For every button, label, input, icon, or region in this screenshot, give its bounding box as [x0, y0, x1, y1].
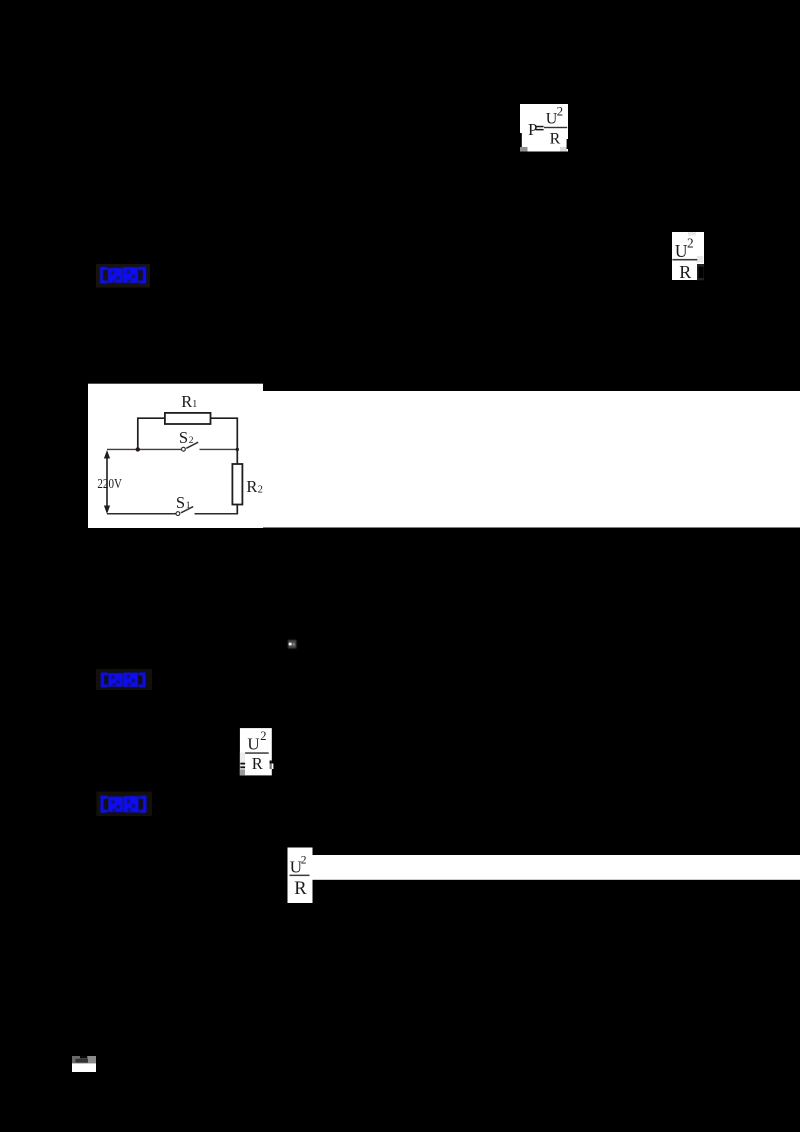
gray bar right edge [270, 764, 272, 770]
blue label 1 dark pockets [112, 271, 135, 283]
svg-text:R: R [181, 392, 192, 411]
gray corner mark bottom-right [560, 147, 567, 152]
white bit right of box [272, 764, 274, 770]
equals sign [536, 126, 544, 128]
svg-text:220V: 220V [97, 476, 122, 491]
switch S1 contact circle [176, 512, 180, 516]
gray patch right of bar [697, 256, 704, 263]
black edge fragment on left edge [520, 133, 522, 147]
svg-text:R: R [679, 262, 691, 282]
wire bottom left segment [107, 513, 176, 515]
dark square bottom-right [697, 264, 704, 280]
svg-text:2: 2 [189, 436, 194, 446]
black notch right edge [567, 139, 568, 149]
wire right vertical upper [236, 417, 238, 464]
blue label 1 glyphs [100, 267, 146, 284]
wire middle right segment [200, 448, 238, 450]
svg-text:2: 2 [258, 484, 263, 495]
wire bottom right segment [195, 513, 239, 515]
svg-text:S: S [176, 493, 185, 512]
svg-text:R: R [550, 130, 561, 147]
fraction bar [245, 752, 269, 754]
svg-text:U: U [675, 241, 688, 261]
gray left column [240, 753, 245, 776]
svg-text:R: R [246, 477, 257, 496]
svg-text:2: 2 [557, 104, 564, 119]
svg-text:R: R [294, 879, 307, 899]
resistor R2 [232, 464, 242, 505]
wire left vertical [137, 417, 139, 449]
svg-text:R: R [252, 754, 263, 773]
fraction bar [290, 875, 310, 877]
node junction left [136, 447, 140, 451]
switch S2 contact circle [182, 447, 186, 451]
wire top-right horizontal [211, 417, 238, 419]
svg-text:S: S [179, 428, 188, 447]
formula box 3 (U^2/R middle) [240, 728, 272, 775]
svg-text:1: 1 [192, 399, 197, 410]
bottom-left artifact dark smudges [80, 1056, 87, 1058]
formula box 4 (U^2/R bottom) [288, 848, 313, 904]
blue label 1 background [96, 264, 150, 288]
formula box 2 (U^2/R top right) [672, 232, 704, 280]
wire top-left horizontal [138, 417, 165, 419]
svg-text:1: 1 [186, 501, 191, 511]
voltage arrow head down [104, 506, 110, 515]
blue label 2 glyphs [101, 672, 146, 687]
blue label 2 dark pockets [112, 675, 135, 685]
gray mark bottom-left [240, 770, 245, 776]
bottom-left artifact gray cap [72, 1056, 88, 1063]
wire middle left segment [107, 448, 182, 450]
circuit schematic [97, 392, 262, 516]
svg-text:2: 2 [687, 236, 694, 251]
gray corner mark bottom-left [520, 147, 528, 152]
circuit white box [88, 384, 263, 528]
fraction bar [672, 259, 697, 261]
blue label 3 dark pockets [112, 800, 135, 812]
tiny gray artifact mark [288, 640, 296, 648]
svg-text:U: U [247, 734, 259, 753]
resistor R1 [165, 413, 211, 424]
white strip 2 [312, 855, 800, 880]
fraction bar [544, 127, 567, 128]
black bar right edge [270, 761, 272, 764]
white band (document strip) [88, 391, 800, 528]
switch S1 lever [181, 507, 193, 513]
black glyph blob in dark square [699, 267, 704, 278]
blue label 2 background [96, 669, 152, 690]
svg-text:2: 2 [260, 729, 266, 743]
wire right vertical lower [236, 505, 238, 514]
formula box 1 (P = U^2/R) [520, 104, 568, 152]
switch S2 lever [186, 442, 198, 448]
voltage arrow shaft [106, 453, 108, 513]
gray tab top [688, 232, 696, 236]
equals fragment left [240, 763, 245, 765]
svg-text:2: 2 [301, 855, 307, 867]
blue label 3 glyphs [100, 796, 146, 813]
blue label 3 background [96, 792, 152, 816]
bottom-left artifact white box [72, 1063, 96, 1072]
node junction right [236, 448, 239, 451]
voltage arrow head up [104, 450, 110, 459]
